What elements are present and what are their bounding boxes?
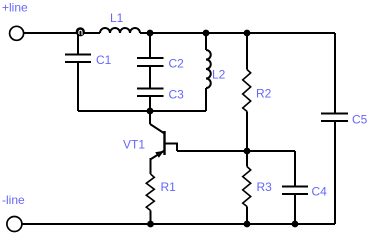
- node D junction dot (R2 top): [244, 30, 251, 37]
- svg-text:R3: R3: [257, 180, 273, 194]
- wire C1 lower stub: [77, 62, 79, 111]
- node E junction dot (mid wire): [147, 108, 154, 115]
- transistor VT1: [150, 111, 165, 159]
- wire R1 lower stub: [150, 211, 152, 225]
- wire C2-C3 link: [149, 66, 151, 88]
- node G junction dot (R1 bottom): [147, 221, 154, 228]
- wire mid horizontal (C1 bottom to L2 bottom): [78, 110, 206, 112]
- svg-text:C4: C4: [312, 185, 328, 199]
- wire right vertical upper (top rail to C5): [334, 33, 336, 114]
- capacitor C2: [137, 58, 164, 66]
- svg-text:+line: +line: [2, 1, 28, 15]
- wire L2 upper stub: [205, 33, 207, 50]
- wire R2 lower stub: [246, 111, 248, 151]
- capacitor C5: [321, 114, 348, 122]
- svg-text:L2: L2: [212, 68, 226, 82]
- node I junction dot (C4 bottom): [292, 221, 299, 228]
- inductor L1: [100, 28, 140, 33]
- wire C4 lower stub: [294, 194, 296, 224]
- wire base step: [165, 144, 177, 152]
- svg-text:C5: C5: [352, 113, 368, 127]
- svg-text:C2: C2: [169, 57, 185, 71]
- wire R3 lower stub: [246, 207, 248, 225]
- wire base row (VT1 base to C4 corner): [177, 150, 295, 152]
- wire L2 lower stub: [205, 88, 207, 111]
- capacitor C4: [282, 187, 308, 195]
- node H junction dot (R3 bottom): [244, 221, 251, 228]
- inductor L2: [206, 50, 211, 88]
- wire top rail left (terminal to node A): [24, 32, 80, 34]
- wire C2 upper stub: [149, 33, 151, 58]
- resistor R3: [243, 167, 251, 207]
- terminal -line: [7, 217, 22, 232]
- svg-text:L1: L1: [110, 11, 124, 25]
- svg-text:VT1: VT1: [123, 138, 145, 152]
- wire top rail right (L1 to right corner): [140, 32, 335, 34]
- capacitor C1: [65, 55, 91, 63]
- wire R3 upper stub: [246, 151, 248, 167]
- wire C1 upper stub: [77, 34, 79, 54]
- node F junction dot (R2/R3): [244, 148, 251, 155]
- wire top rail mid (node A to L1): [79, 32, 100, 34]
- svg-text:C1: C1: [96, 53, 112, 67]
- wire C3 lower stub: [149, 96, 151, 111]
- wire R2 upper stub: [246, 33, 248, 70]
- node C junction dot (L2 top): [203, 30, 210, 37]
- node B junction dot (C2 top): [147, 30, 154, 37]
- svg-text:C3: C3: [169, 88, 185, 102]
- wire bottom rail: [22, 223, 335, 225]
- terminal +line: [10, 26, 24, 40]
- wire VT1 emitter stub: [150, 158, 152, 174]
- svg-text:R1: R1: [161, 180, 177, 194]
- svg-text:R2: R2: [256, 87, 272, 101]
- resistor R1: [146, 174, 154, 211]
- svg-text:-line: -line: [2, 193, 25, 207]
- wire right vertical lower (C5 to bottom rail): [334, 121, 336, 224]
- resistor R2: [243, 70, 251, 112]
- capacitor C3: [137, 89, 164, 97]
- node A (junction with hop mark): [76, 27, 85, 36]
- wire C4 upper stub: [294, 151, 296, 187]
